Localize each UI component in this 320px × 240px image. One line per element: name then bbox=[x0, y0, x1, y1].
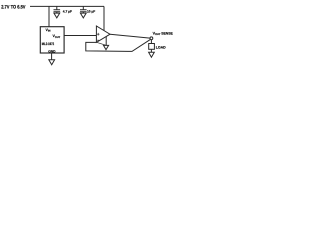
svg-text:4.7 µF: 4.7 µF bbox=[63, 9, 72, 13]
svg-text:VIN: VIN bbox=[46, 28, 51, 33]
svg-text:VOUT SENSE: VOUT SENSE bbox=[153, 31, 174, 36]
svg-text:VOUT: VOUT bbox=[53, 34, 61, 39]
svg-text:LOAD: LOAD bbox=[156, 46, 166, 50]
svg-text:2.7V TO 6.5V: 2.7V TO 6.5V bbox=[1, 4, 26, 10]
svg-text:ML2-1972: ML2-1972 bbox=[42, 42, 54, 46]
svg-text:10 µF: 10 µF bbox=[87, 9, 95, 13]
svg-text:GND: GND bbox=[48, 49, 56, 53]
